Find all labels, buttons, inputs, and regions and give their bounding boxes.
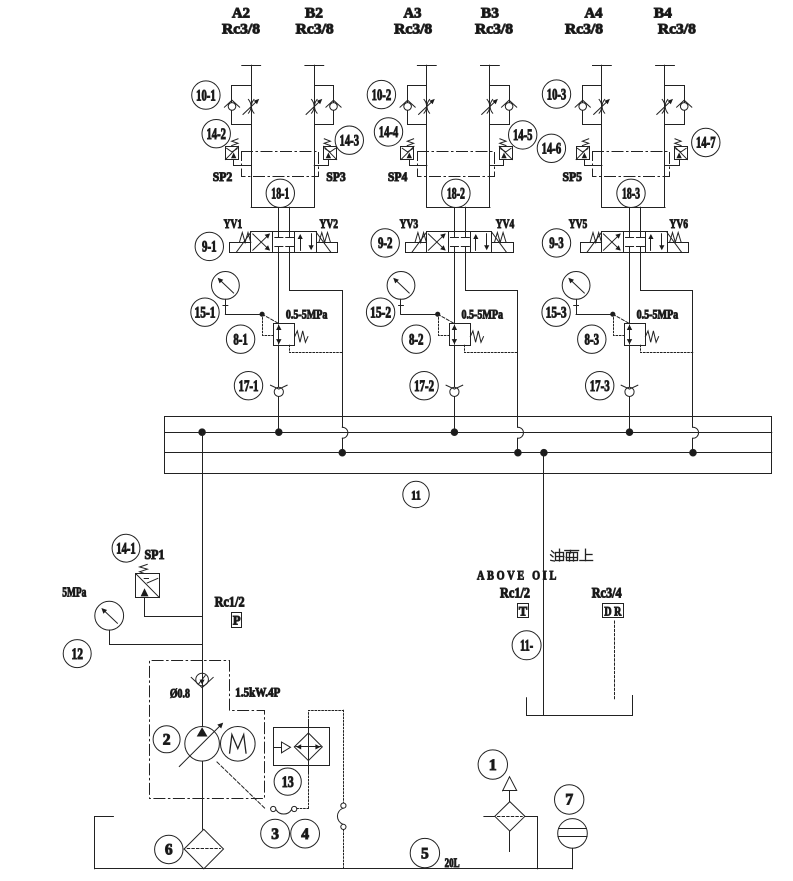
svg-text:14-3: 14-3 xyxy=(340,132,360,149)
wire T line lower branch 3 xyxy=(692,438,694,452)
coupling 3 circle xyxy=(271,806,276,811)
node 15-3 balloon xyxy=(542,298,570,326)
label P boxed xyxy=(232,613,242,628)
junction P rail branch2 xyxy=(451,429,458,436)
pressure switch SP5 left xyxy=(577,147,590,160)
svg-text:SP1: SP1 xyxy=(145,547,165,562)
wire B2 down-pipe xyxy=(314,65,316,207)
svg-text:4: 4 xyxy=(301,826,309,843)
svg-text:Ø0.8: Ø0.8 xyxy=(170,686,190,701)
wire T line branch 2 xyxy=(466,252,518,427)
svg-text:9-2: 9-2 xyxy=(378,235,393,252)
svg-text:18-3: 18-3 xyxy=(622,186,640,203)
node 8-1 balloon xyxy=(226,325,254,353)
wire B4 down-pipe xyxy=(664,65,666,207)
svg-text:Rc3/8: Rc3/8 xyxy=(222,22,260,38)
svg-text:14-6: 14-6 xyxy=(542,141,562,158)
node 17-3 balloon xyxy=(586,372,614,400)
node 7 balloon xyxy=(555,785,584,814)
svg-text:YV1: YV1 xyxy=(224,216,243,231)
svg-text:Rc3/8: Rc3/8 xyxy=(658,22,696,38)
svg-text:0.5-5MPa: 0.5-5MPa xyxy=(462,306,504,321)
wire return line to tank xyxy=(543,453,545,716)
wire dots to tank line xyxy=(343,830,345,869)
gauge stem tick branch 3 xyxy=(574,305,579,307)
svg-text:B4: B4 xyxy=(654,6,672,22)
check valve 17-3 xyxy=(625,387,634,396)
coupling 4 circle xyxy=(292,806,297,811)
node 10-3 balloon xyxy=(542,80,570,108)
pressure gauge 15-3 xyxy=(562,272,590,300)
svg-text:D R: D R xyxy=(604,604,622,618)
block 18-3 plate outline xyxy=(593,152,670,177)
wire gauge line branch 2 xyxy=(401,314,438,316)
node 11 balloon xyxy=(403,481,429,507)
coupling lower circle xyxy=(341,824,346,829)
pressure switch SP4 left xyxy=(401,147,414,160)
drain dash branch 2 xyxy=(465,345,518,352)
orifice 0.8mm on suction xyxy=(196,673,209,686)
wire valve A stub branch 2 xyxy=(454,207,456,232)
relief valve 8-1 xyxy=(274,324,295,346)
svg-text:7: 7 xyxy=(565,792,573,809)
tank outline xyxy=(527,696,633,716)
node 18-3 balloon xyxy=(617,179,645,207)
throttle-check valve 10-2 left unit xyxy=(408,86,427,125)
svg-text:YV6: YV6 xyxy=(670,216,689,231)
node 14-1 balloon xyxy=(112,534,140,562)
check valve 17-2 xyxy=(450,387,459,396)
svg-text:Rc3/8: Rc3/8 xyxy=(394,22,432,38)
svg-text:17-1: 17-1 xyxy=(239,378,259,395)
label Chinese above-oil-level xyxy=(551,549,593,561)
wire T hop over P rail branch 3 xyxy=(693,427,699,438)
motor M circle xyxy=(221,727,256,762)
relief valve 8-3 xyxy=(625,324,646,346)
node 2 balloon xyxy=(153,726,180,753)
solenoid valve 9-3 xyxy=(602,232,668,253)
svg-text:8-3: 8-3 xyxy=(585,331,600,348)
port B2 tick xyxy=(305,65,324,67)
wire pump outlet xyxy=(202,761,204,829)
svg-text:12: 12 xyxy=(71,646,83,663)
port A2 tick xyxy=(242,65,261,67)
svg-text:17-3: 17-3 xyxy=(590,378,610,395)
wire T hop over P rail branch 1 xyxy=(342,427,348,438)
node 10-2 balloon xyxy=(367,80,395,108)
label DR boxed xyxy=(603,604,624,618)
svg-text:8-1: 8-1 xyxy=(233,331,248,348)
pressure gauge 12 xyxy=(95,601,124,630)
block 18-1 plate outline xyxy=(242,152,319,177)
block 18-2 plate outline xyxy=(418,152,495,177)
node 4 balloon xyxy=(291,819,320,848)
port B3 tick xyxy=(481,65,500,67)
wire gauge12 line xyxy=(110,630,203,644)
node 14-6 balloon xyxy=(537,134,565,162)
wire T line branch 3 xyxy=(641,252,693,427)
node 15-1 balloon xyxy=(191,298,219,326)
wire gauge stem branch 3 xyxy=(576,299,578,314)
node 6 balloon xyxy=(155,835,183,863)
coupling upper circle xyxy=(341,803,346,808)
wire valve B stub branch 1 xyxy=(289,207,291,232)
wire A3 down-pipe xyxy=(426,65,428,207)
svg-text:YV4: YV4 xyxy=(496,216,515,231)
wire left hook xyxy=(95,817,114,869)
wire valve A stub branch 3 xyxy=(629,207,631,232)
node 9-3 balloon xyxy=(542,229,570,257)
svg-text:5MPa: 5MPa xyxy=(62,585,86,600)
pilot dash L branch 2 xyxy=(439,314,450,335)
node 12 balloon xyxy=(63,640,91,668)
drain dash branch 3 xyxy=(641,345,694,352)
wire valve A stub branch 1 xyxy=(278,207,280,232)
node 17-1 balloon xyxy=(234,372,262,400)
wire P line branch 1 xyxy=(278,252,280,432)
node 15-2 balloon xyxy=(366,298,394,326)
svg-text:18-1: 18-1 xyxy=(271,186,289,203)
coupling hose arc xyxy=(276,810,291,814)
svg-text:10-3: 10-3 xyxy=(547,86,567,103)
svg-text:15-3: 15-3 xyxy=(546,304,567,321)
svg-text:15-1: 15-1 xyxy=(195,304,216,321)
pump variable arrow xyxy=(179,725,220,766)
wire T line lower branch 1 xyxy=(342,438,344,452)
svg-text:17-2: 17-2 xyxy=(414,378,434,395)
wire gauge stem branch 2 xyxy=(400,299,402,314)
drain dash diagonal xyxy=(217,762,266,809)
svg-text:0.5-5MPa: 0.5-5MPa xyxy=(286,306,328,321)
node 18-1 balloon xyxy=(266,179,294,207)
pump 2 circle xyxy=(185,727,220,762)
svg-text:Rc1/2: Rc1/2 xyxy=(500,585,530,601)
manifold P rail xyxy=(165,432,772,434)
svg-text:20L: 20L xyxy=(445,856,460,870)
solenoid valve 9-2 xyxy=(427,232,492,253)
port B4 tick xyxy=(656,65,675,67)
gauge stem tick branch 2 xyxy=(399,305,404,307)
svg-text:A4: A4 xyxy=(585,6,603,22)
svg-text:B2: B2 xyxy=(305,6,323,22)
svg-text:Rc3/8: Rc3/8 xyxy=(296,22,334,38)
wire valve B stub branch 3 xyxy=(640,207,642,232)
node 9-1 balloon xyxy=(195,232,223,260)
node 9-2 balloon xyxy=(371,229,399,257)
svg-text:13: 13 xyxy=(282,774,294,791)
svg-text:10-2: 10-2 xyxy=(372,87,392,104)
wire A4 down-pipe xyxy=(601,65,603,207)
node 1 balloon xyxy=(478,750,507,779)
wire U connector branch 3 xyxy=(602,207,665,209)
coupling hose arc vertical xyxy=(337,808,343,824)
oil level gauge 7 xyxy=(558,819,588,849)
wire dots right drop xyxy=(343,710,345,803)
pump unit enclosure dash-dot xyxy=(150,661,265,799)
svg-text:YV2: YV2 xyxy=(320,216,339,231)
node 8-3 balloon xyxy=(578,325,606,353)
node 3 balloon xyxy=(261,819,290,848)
pressure switch right xyxy=(675,147,688,160)
junction T rail branch1 xyxy=(339,449,346,456)
wire T line lower branch 2 xyxy=(517,438,519,452)
suction filter 6 xyxy=(184,829,223,869)
node 10-1 balloon xyxy=(192,81,220,109)
svg-text:14-1: 14-1 xyxy=(116,540,136,557)
wire main pressure drop xyxy=(202,432,204,673)
wire valve B stub branch 2 xyxy=(465,207,467,232)
node 5 balloon xyxy=(410,838,439,867)
svg-text:14-5: 14-5 xyxy=(513,127,533,144)
port A4 tick xyxy=(593,65,612,67)
wire tank bottom line xyxy=(95,868,573,870)
svg-text:SP4: SP4 xyxy=(388,169,408,184)
svg-text:Rc3/8: Rc3/8 xyxy=(475,22,513,38)
pilot diag dash branch 3 xyxy=(613,314,629,323)
svg-text:9-1: 9-1 xyxy=(202,239,217,256)
wire gauge line branch 1 xyxy=(225,314,262,316)
solenoid valve 9-1 xyxy=(251,232,317,253)
svg-text:8-2: 8-2 xyxy=(409,331,424,348)
cooler top dots xyxy=(309,711,344,722)
wire gauge line branch 3 xyxy=(576,314,613,316)
svg-text:ABOVE OIL: ABOVE OIL xyxy=(477,568,559,583)
pressure gauge 15-2 xyxy=(387,272,415,300)
node 8-2 balloon xyxy=(402,325,430,353)
svg-text:T: T xyxy=(519,604,528,618)
svg-text:SP5: SP5 xyxy=(562,169,582,184)
throttle-check valve 10-1 right unit xyxy=(315,86,334,125)
pilot dash L branch 1 xyxy=(263,314,274,335)
svg-text:2: 2 xyxy=(163,732,171,749)
svg-text:P: P xyxy=(233,614,241,628)
wire U connector branch 2 xyxy=(427,207,490,209)
wire T line branch 1 xyxy=(290,252,343,427)
junction P rail main xyxy=(199,429,206,436)
node 14-7 balloon xyxy=(692,128,720,156)
wire gauge stem branch 1 xyxy=(225,299,227,314)
svg-text:14-2: 14-2 xyxy=(206,126,226,143)
wire B3 down-pipe xyxy=(489,65,491,207)
node 14-5 balloon xyxy=(509,121,537,149)
check valve 17-1 xyxy=(274,387,283,396)
svg-text:A2: A2 xyxy=(232,6,250,22)
throttle-check valve 10-2 right unit xyxy=(490,86,510,125)
junction gauge line branch 2 xyxy=(436,312,440,316)
manifold block 11 outline xyxy=(165,417,772,474)
wire P line branch 3 xyxy=(629,252,631,432)
svg-text:15-2: 15-2 xyxy=(370,304,391,321)
wire P line branch 2 xyxy=(454,252,456,432)
svg-text:5: 5 xyxy=(421,845,429,862)
svg-text:YV5: YV5 xyxy=(569,216,588,231)
svg-text:SP2: SP2 xyxy=(213,169,233,184)
drain dots to cooler xyxy=(297,808,309,810)
wire SP1 pilot xyxy=(145,598,203,617)
svg-text:B3: B3 xyxy=(481,6,499,22)
air breather filter 1 xyxy=(503,777,517,791)
junction T rail branch3 xyxy=(690,449,697,456)
pressure switch SP2 left xyxy=(226,147,239,160)
pressure switch right xyxy=(500,147,513,160)
manifold T rail xyxy=(165,452,772,454)
svg-text:Rc3/8: Rc3/8 xyxy=(565,22,603,38)
throttle-check valve 10-1 left unit xyxy=(232,86,252,125)
throttle-check valve 10-3 right unit xyxy=(665,86,685,125)
svg-text:YV3: YV3 xyxy=(400,216,419,231)
svg-text:10-1: 10-1 xyxy=(196,87,216,104)
node 18-2 balloon xyxy=(442,179,470,207)
svg-text:6: 6 xyxy=(165,842,173,859)
junction gauge line branch 3 xyxy=(611,312,615,316)
wire T hop over P rail branch 2 xyxy=(518,427,524,438)
svg-text:3: 3 xyxy=(271,826,279,843)
svg-text:18-2: 18-2 xyxy=(447,186,465,203)
svg-text:11: 11 xyxy=(411,489,421,503)
junction gauge line branch 1 xyxy=(260,312,264,316)
svg-text:0.5-5MPa: 0.5-5MPa xyxy=(637,306,679,321)
cooler assembly 13 xyxy=(274,728,330,766)
node 14-2 balloon xyxy=(202,120,230,148)
svg-text:1: 1 xyxy=(489,757,497,774)
pilot dash L branch 3 xyxy=(614,314,625,335)
throttle-check valve 10-3 left unit xyxy=(583,86,602,125)
svg-text:A3: A3 xyxy=(404,6,422,22)
svg-text:1.5kW.4P: 1.5kW.4P xyxy=(235,685,280,700)
node 14-3 balloon xyxy=(335,126,363,154)
node 11- balloon xyxy=(512,631,541,660)
junction P rail branch1 xyxy=(276,429,283,436)
wire U connector branch 1 xyxy=(251,207,314,209)
svg-text:14-7: 14-7 xyxy=(696,135,716,152)
pilot diag dash branch 1 xyxy=(262,314,278,323)
port A3 tick xyxy=(417,65,436,67)
svg-text:Rc1/2: Rc1/2 xyxy=(215,595,245,611)
pilot diag dash branch 2 xyxy=(438,314,454,323)
wire A2 down-pipe xyxy=(251,65,253,207)
node 13 balloon xyxy=(274,768,301,795)
node 17-2 balloon xyxy=(410,372,438,400)
relief valve 8-2 xyxy=(450,324,471,346)
junction T rail branch2 xyxy=(515,449,522,456)
node 14-4 balloon xyxy=(374,118,402,146)
drain dotted pipe xyxy=(614,621,616,701)
wire cooler lower dots xyxy=(308,773,310,809)
label T boxed xyxy=(518,604,529,618)
gauge stem tick branch 1 xyxy=(223,305,228,307)
svg-text:14-4: 14-4 xyxy=(379,124,399,141)
junction P rail branch3 xyxy=(626,429,633,436)
pressure switch SP1 14-1 xyxy=(136,574,160,598)
drain dash branch 1 xyxy=(290,345,343,352)
svg-text:11-: 11- xyxy=(520,638,533,655)
pressure switch SP3 right xyxy=(324,147,337,160)
svg-text:Rc3/4: Rc3/4 xyxy=(592,585,622,601)
junction T rail return xyxy=(541,449,548,456)
svg-text:9-3: 9-3 xyxy=(549,235,564,252)
svg-text:SP3: SP3 xyxy=(326,169,346,184)
pressure gauge 15-1 xyxy=(212,272,240,300)
